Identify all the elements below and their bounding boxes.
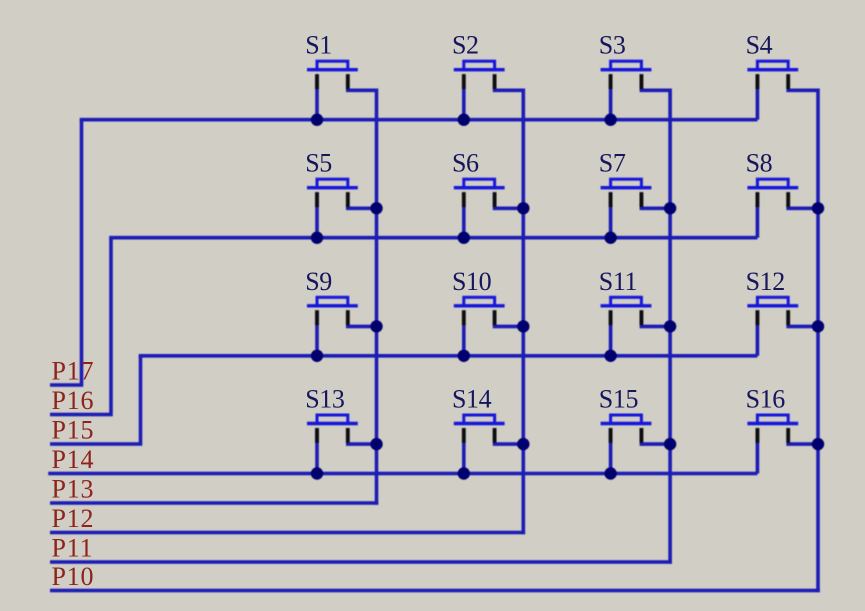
svg-text:S8: S8 <box>746 149 773 178</box>
svg-text:S10: S10 <box>452 267 492 296</box>
svg-text:P14: P14 <box>52 445 95 474</box>
svg-text:S16: S16 <box>746 385 786 414</box>
svg-text:S14: S14 <box>452 385 492 414</box>
svg-text:P16: P16 <box>52 386 95 415</box>
svg-text:P10: P10 <box>52 562 95 591</box>
svg-text:P13: P13 <box>52 475 95 504</box>
svg-text:S5: S5 <box>305 149 332 178</box>
svg-text:S12: S12 <box>746 267 785 296</box>
svg-text:S9: S9 <box>305 267 332 296</box>
svg-text:S13: S13 <box>305 385 344 414</box>
svg-text:S15: S15 <box>599 385 638 414</box>
svg-text:S11: S11 <box>599 267 637 296</box>
svg-text:S7: S7 <box>599 149 626 178</box>
svg-text:S2: S2 <box>452 31 479 60</box>
svg-text:P17: P17 <box>52 357 95 386</box>
svg-text:S6: S6 <box>452 149 479 178</box>
svg-text:S3: S3 <box>599 31 626 60</box>
svg-text:P12: P12 <box>52 504 95 533</box>
svg-text:S1: S1 <box>305 31 332 60</box>
svg-text:P15: P15 <box>52 416 95 445</box>
svg-text:S4: S4 <box>746 31 773 60</box>
svg-text:P11: P11 <box>52 534 94 563</box>
